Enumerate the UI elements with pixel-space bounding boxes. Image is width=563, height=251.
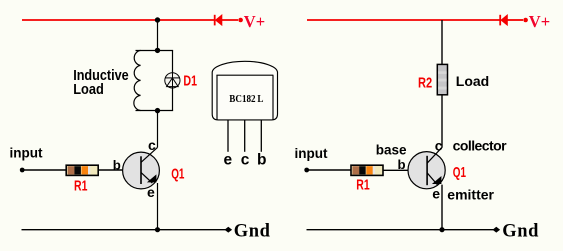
- svg-text:Gnd: Gnd: [502, 222, 539, 242]
- wire base (right): [384, 169, 408, 171]
- inductor (Inductive Load coil): [134, 50, 141, 110]
- transistor package BC182L body: [212, 61, 277, 120]
- svg-text:e: e: [224, 151, 233, 168]
- terminal diamond before Gnd (right): [493, 227, 501, 233]
- svg-text:c: c: [241, 151, 250, 168]
- diode arrow on left V+ rail: [215, 15, 238, 26]
- wire loop bottom: [136, 110, 174, 112]
- svg-text:Q1: Q1: [171, 165, 184, 182]
- resistor R2 (load): [437, 64, 447, 94]
- svg-text:base: base: [376, 143, 407, 158]
- svg-text:Load: Load: [456, 73, 489, 89]
- svg-text:input: input: [10, 145, 43, 160]
- svg-text:collector: collector: [453, 138, 508, 154]
- svg-text:b: b: [257, 151, 266, 168]
- junction on rail: [155, 17, 160, 22]
- package leg b: [260, 120, 262, 152]
- svg-text:BC182 L: BC182 L: [229, 94, 263, 105]
- svg-text:V+: V+: [244, 12, 265, 31]
- svg-text:R1: R1: [74, 178, 87, 195]
- package leg e: [227, 120, 229, 152]
- resistor R1 (left, colour bands): [66, 165, 98, 175]
- svg-text:e: e: [147, 184, 155, 200]
- wire V+ rail right: [307, 19, 500, 21]
- svg-text:D1: D1: [183, 73, 197, 90]
- svg-text:Load: Load: [73, 82, 104, 98]
- svg-text:R2: R2: [418, 75, 432, 92]
- terminal diamond before Gnd (left): [225, 227, 233, 233]
- wire diode branch upper: [172, 50, 174, 73]
- wire emitter vertical: [157, 183, 159, 230]
- wire Gnd rail right: [307, 229, 497, 231]
- wire Gnd rail left: [22, 229, 229, 231]
- wire V+ rail left: [22, 19, 215, 21]
- svg-text:R1: R1: [356, 177, 369, 194]
- node input (left): [20, 168, 25, 173]
- wire collector vertical: [157, 111, 159, 148]
- node dot before V+ label (left): [238, 18, 243, 23]
- svg-text:V+: V+: [529, 12, 550, 31]
- wire input (right): [307, 169, 352, 171]
- diode D1 (circle symbol): [165, 73, 180, 88]
- wire input (left): [22, 169, 66, 171]
- svg-text:input: input: [295, 146, 328, 161]
- junction at loop top: [155, 48, 160, 53]
- resistor R1 (right, colour bands): [351, 165, 383, 175]
- wire rail to R2: [441, 20, 443, 64]
- node dot before V+ label (right): [523, 18, 528, 23]
- wire from rail down to load loop: [157, 20, 159, 50]
- junction emitter/ground (right): [439, 227, 444, 232]
- wire emitter vertical (right): [441, 185, 443, 230]
- wire diode branch lower: [172, 88, 174, 111]
- transistor Q1 (right): [408, 147, 445, 189]
- wire R2 to collector: [441, 95, 443, 148]
- junction emitter/ground: [155, 227, 160, 232]
- junction at loop bottom: [155, 108, 160, 113]
- svg-text:Gnd: Gnd: [234, 222, 271, 242]
- svg-text:e: e: [432, 186, 440, 202]
- svg-text:emitter: emitter: [447, 187, 494, 203]
- svg-text:Q1: Q1: [453, 164, 466, 181]
- svg-text:c: c: [435, 137, 443, 153]
- diode arrow on right V+ rail: [500, 15, 523, 26]
- node input (right): [304, 168, 309, 173]
- svg-text:c: c: [148, 137, 156, 153]
- wire base (circle to resistor): [99, 169, 123, 171]
- package leg c: [244, 120, 246, 152]
- transistor Q1 (left): [123, 147, 160, 189]
- wire loop top: [136, 50, 174, 52]
